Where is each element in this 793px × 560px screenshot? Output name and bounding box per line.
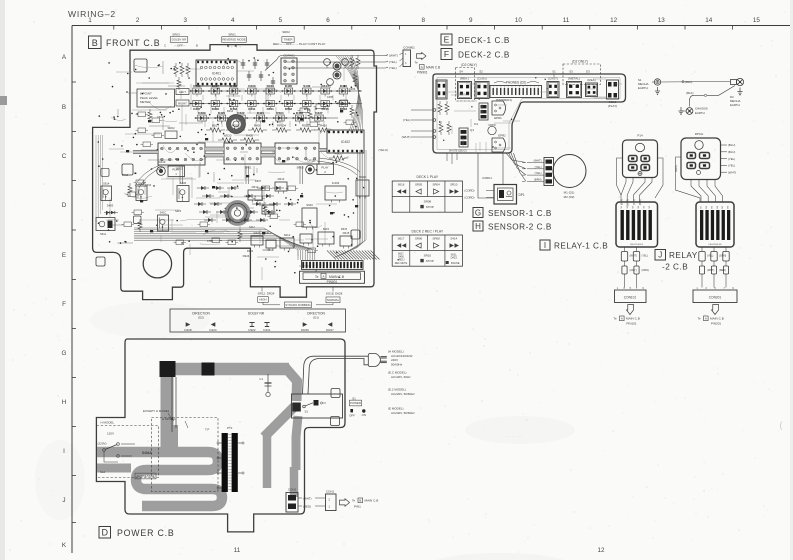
svg-text:D924: D924: [243, 254, 250, 258]
svg-text:4: 4: [504, 87, 505, 89]
svg-text:(GRY): (GRY): [630, 269, 637, 272]
svg-text:D604: D604: [145, 183, 152, 187]
svg-text:S620: S620: [306, 203, 313, 207]
svg-text:SR02: SR02: [168, 126, 175, 130]
svg-text:EARTH: EARTH: [695, 111, 705, 115]
svg-text:R504: R504: [276, 111, 284, 115]
svg-text:9: 9: [523, 87, 524, 89]
svg-text:CON1: CON1: [326, 490, 335, 494]
svg-text:(PLAY): (PLAY): [608, 104, 617, 108]
svg-text:MAIN C.B: MAIN C.B: [365, 499, 379, 503]
svg-text:(YELO): (YELO): [379, 148, 388, 152]
svg-text:(WHT): (WHT): [534, 159, 542, 163]
svg-text:(BLU): (BLU): [728, 143, 735, 147]
svg-text:(RED): (RED): [719, 269, 726, 272]
svg-text:Te: Te: [352, 499, 356, 503]
svg-text:3: 3: [183, 17, 187, 24]
svg-text:H: H: [475, 222, 481, 231]
svg-text:D: D: [102, 527, 109, 537]
svg-text:SR08: SR08: [424, 200, 432, 204]
svg-text:AC240V, 50/60Hz: AC240V, 50/60Hz: [391, 411, 415, 415]
svg-text:T.P: T.P: [205, 428, 209, 432]
svg-text:SR01: SR01: [228, 33, 236, 37]
svg-text:(WHT): (WHT): [728, 170, 736, 174]
svg-text:CO4B01: CO4B01: [263, 248, 274, 252]
svg-text:10: 10: [515, 17, 523, 24]
svg-text:13: 13: [658, 17, 666, 24]
svg-text:⇆ ← ⇆ →: ⇆ ← ⇆ →: [227, 45, 241, 49]
svg-text:TIMER: TIMER: [284, 37, 293, 41]
svg-text:G: G: [62, 350, 67, 357]
svg-text:B: B: [92, 38, 98, 48]
svg-text:120V: 120V: [107, 432, 114, 436]
svg-text:(D1): (D1): [313, 316, 319, 320]
svg-text:(YEL): (YEL): [707, 255, 714, 258]
svg-text:S415: S415: [175, 209, 182, 213]
svg-text:3: 3: [534, 87, 535, 89]
svg-text:WIRING–2: WIRING–2: [68, 9, 116, 19]
svg-text:SH-075-(CB)-D1: SH-075-(CB)-D1: [449, 150, 467, 153]
svg-text:D489: D489: [198, 111, 206, 115]
svg-text:R405: R405: [254, 124, 262, 128]
svg-text:B: B: [196, 44, 198, 48]
svg-text:CDR401: CDR401: [283, 53, 295, 57]
svg-text:OFF: OFF: [349, 414, 355, 418]
svg-text:Te: Te: [315, 275, 319, 279]
svg-text:5: 5: [508, 87, 509, 89]
svg-text:D421: D421: [263, 328, 271, 332]
svg-text:PIN101: PIN101: [626, 322, 637, 326]
svg-text:D428: D428: [184, 328, 192, 332]
svg-text:6412: 6412: [249, 225, 255, 229]
svg-text:DR27: DR27: [326, 328, 334, 332]
svg-text:(WHT): (WHT): [707, 269, 715, 272]
svg-text:D445: D445: [322, 107, 330, 111]
svg-text:SR06: SR06: [415, 237, 423, 241]
svg-text:S41C: S41C: [160, 210, 167, 214]
svg-text:S612: S612: [265, 231, 272, 235]
svg-text:D433: D433: [248, 84, 256, 88]
svg-text:(WHT): (WHT): [389, 54, 398, 58]
svg-text:(D2 ONLY): (D2 ONLY): [572, 60, 588, 64]
svg-text:S616: S616: [359, 175, 366, 179]
svg-text:Q1: Q1: [470, 128, 474, 132]
svg-text:S2: S2: [479, 70, 483, 74]
svg-text:11: 11: [234, 547, 241, 554]
svg-text:C455: C455: [327, 95, 334, 99]
svg-text:(CORD): (CORD): [464, 189, 474, 193]
svg-text:EPR1: EPR1: [494, 116, 502, 120]
svg-text:CORD1: CORD1: [482, 176, 492, 180]
svg-text:(220V): (220V): [98, 442, 107, 446]
svg-text:SENSOR-2 C.B: SENSOR-2 C.B: [488, 223, 552, 232]
svg-text:RPCH: RPCH: [695, 132, 704, 136]
svg-text:DR18: DR18: [307, 159, 315, 163]
svg-text:AC VOLTAGE: AC VOLTAGE: [136, 474, 154, 478]
svg-text:D922: D922: [248, 328, 256, 332]
svg-text:MAIN C.B: MAIN C.B: [710, 317, 724, 321]
svg-text:(RED): (RED): [675, 165, 678, 172]
svg-text:D607: D607: [255, 179, 262, 183]
svg-text:POWER: POWER: [350, 401, 361, 405]
svg-text:CB-075-R-D1: CB-075-R-D1: [630, 244, 644, 246]
svg-text:D424: D424: [209, 328, 217, 332]
svg-text:S4: S4: [459, 70, 463, 74]
svg-text:B: B: [62, 104, 66, 111]
svg-text:6015: 6015: [323, 227, 330, 231]
svg-text:Te: Te: [415, 61, 419, 65]
svg-text:S61L: S61L: [451, 252, 458, 256]
svg-text:DECK 1 PLAY: DECK 1 PLAY: [417, 175, 439, 179]
svg-text:D3: D3: [586, 70, 590, 74]
svg-text:(BLU): (BLU): [728, 150, 735, 154]
svg-text:SR10: SR10: [424, 254, 432, 258]
svg-text:(D2 ONLY): (D2 ONLY): [461, 63, 477, 67]
svg-text:HIGH: HIGH: [259, 297, 266, 301]
svg-text:(CORD): (CORD): [464, 196, 474, 200]
svg-text:(: (: [780, 420, 783, 430]
svg-text:D432: D432: [230, 84, 238, 88]
svg-text:REC↔→OFF↔→ PLAY/ CONT PLAY: REC↔→OFF↔→ PLAY/ CONT PLAY: [273, 42, 326, 46]
svg-text:D483: D483: [107, 204, 114, 208]
svg-text:IC401: IC401: [212, 71, 221, 75]
svg-text:D641: D641: [267, 107, 275, 111]
svg-text:D435: D435: [285, 84, 293, 88]
svg-text:D422: D422: [237, 111, 245, 115]
svg-text:8: 8: [421, 17, 425, 24]
svg-text:B: B: [359, 499, 361, 503]
svg-text:(YEL): (YEL): [389, 66, 397, 70]
svg-text:S1: S1: [305, 410, 309, 414]
svg-text:S616: S616: [398, 183, 405, 187]
svg-text:ON: ON: [362, 413, 366, 417]
svg-text:↔OFF↔: ↔OFF↔: [174, 44, 186, 48]
svg-text:DECK-1 C.B: DECK-1 C.B: [458, 36, 510, 45]
svg-text:J: J: [62, 497, 65, 504]
svg-text:LEFT: LEFT: [179, 90, 186, 94]
svg-text:15: 15: [753, 17, 761, 24]
svg-text:D466: D466: [340, 84, 348, 88]
svg-text:C1: C1: [259, 377, 263, 381]
svg-text:RIGHT: RIGHT: [178, 102, 187, 106]
svg-text:8: 8: [519, 87, 520, 89]
svg-text:R416: R416: [320, 124, 328, 128]
svg-text:I: I: [544, 241, 546, 250]
svg-text:9: 9: [469, 17, 473, 24]
svg-text:1: 1: [493, 87, 494, 89]
svg-text:DR26: DR26: [301, 328, 309, 332]
svg-text:DECK 2 REC / PLAY: DECK 2 REC / PLAY: [412, 230, 444, 234]
svg-text:CRPD: CRPD: [488, 123, 495, 127]
svg-text:MAIN C.B: MAIN C.B: [626, 317, 640, 321]
svg-text:PT1: PT1: [227, 426, 233, 430]
svg-text:C612: C612: [157, 115, 164, 119]
svg-text:A: A: [705, 317, 707, 321]
svg-text:R405: R405: [246, 134, 254, 138]
svg-text:2: 2: [530, 87, 531, 89]
svg-text:STOP: STOP: [426, 205, 434, 209]
svg-text:E: E: [444, 35, 450, 45]
svg-text:PIN801: PIN801: [327, 280, 338, 284]
svg-text:SR08: SR08: [433, 237, 441, 241]
svg-text:S612: S612: [284, 233, 291, 237]
svg-text:W520: W520: [224, 134, 232, 138]
svg-text:A: A: [322, 274, 324, 278]
svg-text:Te: Te: [698, 317, 702, 321]
svg-text:REVERSE MODE: REVERSE MODE: [222, 37, 245, 41]
svg-text:A: A: [421, 65, 423, 69]
svg-text:D441: D441: [248, 107, 256, 111]
svg-text:(YEL): (YEL): [535, 165, 542, 169]
svg-text:1: 1: [526, 87, 527, 89]
svg-text:D421: D421: [257, 111, 265, 115]
svg-text:(YEL): (YEL): [728, 164, 735, 168]
svg-text:MAIN C.B: MAIN C.B: [329, 275, 345, 279]
svg-text:D420: D420: [218, 111, 226, 115]
svg-text:11: 11: [563, 17, 570, 24]
svg-text:S404A: S404A: [142, 451, 152, 455]
svg-text:C: C: [164, 44, 166, 48]
svg-text:(YEL): (YEL): [403, 118, 411, 122]
svg-text:50/60Hz: 50/60Hz: [391, 362, 403, 366]
svg-text:S617: S617: [398, 237, 405, 241]
svg-text:DECK-2 C.B: DECK-2 C.B: [458, 51, 510, 60]
svg-text:EXCEPT H MODEL: EXCEPT H MODEL: [143, 409, 170, 413]
svg-text:MAIN C.B: MAIN C.B: [426, 66, 440, 70]
svg-text:I: I: [63, 448, 65, 455]
svg-text:S611: S611: [100, 232, 107, 236]
svg-text:METER: METER: [140, 100, 151, 104]
svg-text:D430: D430: [193, 84, 201, 88]
svg-text:S3: S3: [569, 70, 573, 74]
svg-text:6: 6: [326, 17, 330, 24]
svg-text:4: 4: [231, 17, 235, 24]
svg-text:POWER C.B: POWER C.B: [117, 528, 175, 538]
svg-text:PIN901: PIN901: [417, 71, 428, 75]
svg-text:CON201: CON201: [709, 296, 722, 300]
svg-text:A: A: [621, 317, 623, 321]
svg-text:SR03: SR03: [172, 33, 180, 37]
svg-text:S1: S1: [552, 70, 556, 74]
svg-text:C: C: [62, 153, 67, 160]
svg-text:(RED): (RED): [303, 505, 311, 509]
svg-text:(WHT): (WHT): [303, 497, 312, 501]
svg-text:Te: Te: [614, 317, 618, 321]
svg-text:RELAY: RELAY: [669, 251, 698, 260]
svg-text:6: 6: [511, 87, 512, 89]
svg-text:SL2: SL2: [100, 470, 106, 474]
svg-text:E: E: [62, 252, 66, 259]
svg-text:D437: D437: [315, 111, 323, 115]
svg-text:CON101: CON101: [624, 296, 637, 300]
svg-text:SENSOR-1 C.B: SENSOR-1 C.B: [488, 209, 552, 218]
svg-text:D444: D444: [322, 84, 330, 88]
svg-text:EARTH: EARTH: [638, 86, 648, 90]
svg-text:SR05: SR05: [415, 183, 423, 187]
svg-text:D615: D615: [341, 227, 348, 231]
svg-text:12: 12: [597, 547, 605, 554]
svg-text:S406: S406: [180, 181, 187, 185]
svg-text:4: 4: [538, 87, 539, 89]
svg-text:B617: B617: [212, 124, 219, 128]
svg-text:-2 C.B: -2 C.B: [662, 263, 688, 272]
svg-text:IC403: IC403: [332, 181, 340, 185]
svg-text:(WHT): (WHT): [630, 255, 638, 258]
svg-text:D612: D612: [252, 185, 259, 189]
svg-text:FRONT C.B: FRONT C.B: [106, 38, 160, 48]
svg-text:IC1: IC1: [474, 122, 479, 126]
svg-text:(BRN): (BRN): [534, 177, 542, 181]
svg-text:AC220V, 50/60Hz: AC220V, 50/60Hz: [391, 392, 415, 396]
svg-text:EPR2: EPR2: [498, 134, 506, 138]
svg-text:D434: D434: [267, 84, 275, 88]
svg-text:SR01: SR01: [245, 166, 252, 170]
svg-text:D642: D642: [285, 107, 293, 111]
svg-text:R9LO: R9LO: [335, 152, 344, 156]
svg-text:... .. ...: ... .. ...: [505, 433, 522, 439]
svg-text:J: J: [658, 251, 662, 260]
svg-text:D613: D613: [278, 177, 285, 181]
svg-text:IC402: IC402: [341, 140, 350, 144]
svg-text:(YEL): (YEL): [728, 157, 735, 161]
svg-text:S136: S136: [303, 84, 310, 88]
svg-text:(YEL): (YEL): [389, 60, 397, 64]
svg-text:D617: D617: [212, 84, 220, 88]
svg-text:DOLBY NR: DOLBY NR: [248, 312, 265, 316]
svg-text:F: F: [444, 49, 449, 59]
svg-text:(GRN): (GRN): [719, 255, 726, 258]
svg-text:7: 7: [374, 17, 378, 24]
svg-text:PAUSE: PAUSE: [451, 261, 460, 265]
svg-text:RP504: RP504: [277, 124, 287, 128]
svg-text:DP1: DP1: [519, 193, 525, 197]
svg-text:PHONES (D2): PHONES (D2): [506, 81, 527, 85]
svg-text:SR12, DR24: SR12, DR24: [258, 292, 275, 296]
svg-text:(CxOx): (CxOx): [477, 77, 487, 81]
svg-text:2: 2: [136, 17, 140, 24]
svg-text:CON801: CON801: [403, 46, 415, 50]
svg-text:D419: D419: [159, 160, 166, 164]
svg-text:(ORN): (ORN): [642, 269, 649, 272]
svg-text:F: F: [62, 301, 66, 308]
svg-text:R418: R418: [122, 173, 129, 177]
svg-text:PIN1: PIN1: [354, 505, 361, 509]
svg-text:SR10: SR10: [450, 183, 458, 187]
svg-text:(YEL): (YEL): [535, 171, 542, 175]
svg-text:RELAY-1 C.B: RELAY-1 C.B: [554, 242, 608, 251]
svg-text:REC MUTE: REC MUTE: [395, 262, 408, 265]
svg-text:SYNCRO DUBBING: SYNCRO DUBBING: [285, 303, 311, 307]
svg-text:7: 7: [515, 87, 516, 89]
svg-text:D: D: [62, 202, 67, 209]
svg-text:H MODEL: H MODEL: [101, 421, 115, 425]
svg-text:R414: R414: [227, 109, 234, 113]
svg-text:(YEL): (YEL): [642, 255, 649, 258]
svg-text:NORMAL: NORMAL: [327, 298, 340, 302]
svg-text:(REA.): (REA.): [460, 77, 469, 81]
svg-text:CON1: CON1: [288, 488, 297, 492]
svg-text:(CAST): (CAST): [548, 77, 558, 81]
svg-text:SO18, D628: SO18, D628: [326, 292, 343, 296]
svg-text:D924: D924: [247, 249, 254, 253]
svg-text:2: 2: [496, 87, 497, 89]
svg-text:D424: D424: [254, 231, 261, 235]
svg-text:(WHT): (WHT): [402, 135, 411, 139]
svg-text:G: G: [475, 208, 481, 217]
svg-text:(D2): (D2): [198, 316, 204, 320]
svg-text:S614: S614: [103, 181, 110, 185]
svg-text:AC120V, 60Hz: AC120V, 60Hz: [391, 375, 411, 379]
svg-text:D615: D615: [343, 231, 350, 235]
svg-text:14: 14: [705, 17, 713, 24]
svg-text:EARTH: EARTH: [730, 103, 740, 107]
svg-text:STOP: STOP: [426, 259, 434, 263]
svg-text:PIN201: PIN201: [711, 322, 722, 326]
svg-text:CB-075-R-D2: CB-075-R-D2: [708, 244, 722, 246]
svg-text:DOLBY NR: DOLBY NR: [172, 37, 187, 41]
svg-text:S414: S414: [450, 237, 457, 241]
svg-text:C720: C720: [207, 239, 214, 243]
svg-text:M2 (D2): M2 (D2): [564, 195, 575, 199]
svg-text:H: H: [62, 399, 67, 406]
svg-text:P14: P14: [637, 134, 643, 138]
svg-text:(BLK): (BLK): [686, 91, 693, 95]
svg-text:3: 3: [500, 87, 501, 89]
svg-text:D423: D423: [451, 256, 458, 260]
svg-text:5: 5: [279, 17, 283, 24]
svg-text:(BLK): (BLK): [685, 80, 692, 84]
svg-text:(METAL): (METAL): [568, 77, 580, 81]
svg-text:SR04: SR04: [433, 183, 441, 187]
svg-text:12: 12: [610, 17, 618, 24]
svg-text:SR02: SR02: [282, 30, 290, 34]
